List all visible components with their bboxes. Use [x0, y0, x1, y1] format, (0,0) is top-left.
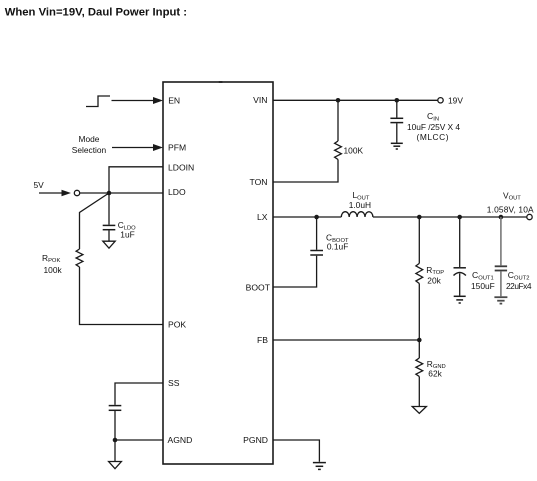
Mode Selection label: [72, 134, 107, 155]
L_OUT value label: [349, 190, 371, 210]
svg-text:100k: 100k: [44, 265, 63, 275]
IC U1 body: [163, 82, 273, 464]
svg-text:LDOIN: LDOIN: [168, 162, 194, 172]
svg-text:22uFx4: 22uFx4: [506, 281, 532, 291]
svg-text:PFM: PFM: [168, 143, 186, 153]
wire to R_TOP: [418, 217, 420, 263]
IC top-edge pin1 tick: [219, 81, 223, 83]
wire to C_LDO: [108, 193, 110, 225]
ground (earth) below C_IN: [391, 143, 403, 149]
EN step-input symbol: [86, 96, 110, 107]
resistor R_TOP: [416, 263, 423, 283]
node junction VOUT/C_OUT2: [499, 215, 504, 220]
wire LDO: [80, 192, 163, 194]
svg-text:Mode: Mode: [79, 134, 100, 144]
svg-text:PGND: PGND: [243, 435, 268, 445]
wire 100K to TON: [273, 160, 338, 183]
svg-text:10uF /25V X 4: 10uF /25V X 4: [407, 122, 460, 132]
svg-text:LX: LX: [257, 212, 268, 222]
R_POK label: [42, 253, 62, 275]
capacitor C_BOOT: [310, 251, 323, 256]
wire inductor to VOUT terminal: [373, 216, 527, 218]
wire R_TOP to FB: [418, 284, 420, 341]
capacitor C_SS: [109, 406, 122, 411]
wire FB node to R_GND: [418, 340, 420, 358]
node junction VIN/100K: [336, 98, 341, 103]
svg-text:BOOT: BOOT: [246, 282, 271, 292]
svg-text:5V: 5V: [34, 180, 45, 190]
svg-text:VIN: VIN: [253, 95, 267, 105]
wire to C_OUT1: [459, 217, 461, 267]
19V terminal circle: [438, 98, 443, 103]
5V terminal circle: [74, 190, 79, 195]
wire to C_BOOT: [316, 217, 318, 250]
V_OUT label: [487, 190, 534, 214]
capacitor C_OUT1 (polarized): [454, 268, 466, 276]
svg-text:Selection: Selection: [72, 145, 107, 155]
wire C_OUT2 to ground: [500, 271, 502, 296]
VOUT terminal circle: [527, 214, 532, 219]
wire C_SS to AGND line: [114, 411, 116, 440]
svg-text:POK: POK: [168, 320, 186, 330]
svg-text:150uF: 150uF: [471, 281, 495, 291]
wire LDOIN: [109, 167, 163, 193]
wire arrow into EN: [112, 97, 164, 104]
wire AGND: [115, 439, 163, 441]
wire arrow into PFM: [112, 144, 163, 151]
wire SS: [115, 383, 163, 405]
R_TOP label: [426, 265, 444, 286]
wire LX to inductor: [273, 216, 341, 218]
node junction LDO/5V: [107, 191, 112, 196]
node junction LX/C_BOOT: [314, 215, 319, 220]
ground (signal) below R_GND: [412, 407, 426, 414]
resistor R 100K: [335, 141, 342, 160]
ground (signal) below AGND: [109, 462, 122, 469]
svg-text:FB: FB: [257, 335, 268, 345]
node junction VOUT/C_OUT1: [457, 215, 462, 220]
svg-text:0.1uF: 0.1uF: [327, 241, 348, 251]
resistor R_GND: [416, 358, 423, 377]
svg-text:TON: TON: [250, 177, 268, 187]
wire VIN node to C_IN: [396, 100, 398, 117]
svg-text:1uF: 1uF: [120, 229, 134, 239]
svg-text:EN: EN: [168, 96, 180, 106]
node junction AGND: [113, 438, 118, 443]
svg-text:SS: SS: [168, 378, 180, 388]
ground (signal) below C_LDO: [103, 241, 115, 248]
wire diagonal junction to R_POK: [80, 193, 110, 249]
svg-text:When Vin=19V, Daul Power Input: When Vin=19V, Daul Power Input :: [5, 6, 187, 18]
C_IN value label: [407, 111, 460, 142]
capacitor C_IN: [390, 118, 403, 122]
node junction VOUT/R_TOP: [417, 215, 422, 220]
wire PGND: [273, 440, 319, 462]
capacitor C_OUT2: [495, 266, 507, 270]
C_OUT2 value label: [506, 270, 532, 291]
svg-text:19V: 19V: [448, 96, 463, 106]
svg-text:1.058V, 10A: 1.058V, 10A: [487, 204, 534, 214]
wire C_IN to ground: [396, 123, 398, 142]
wire VIN to 19V terminal: [273, 99, 438, 101]
wire R_GND to ground: [418, 377, 420, 407]
wire R_POK to POK: [80, 267, 164, 325]
wire VIN node to 100K: [337, 100, 339, 141]
wire to C_OUT2: [500, 217, 502, 265]
resistor R_POK: [76, 249, 83, 267]
svg-text:20k: 20k: [427, 275, 441, 285]
C_LDO value label: [118, 220, 136, 239]
svg-text:(MLCC): (MLCC): [417, 132, 449, 142]
arrow into 5V terminal: [39, 190, 71, 196]
C_OUT1 value label: [471, 270, 495, 291]
svg-text:1.0uH: 1.0uH: [349, 200, 371, 210]
wire FB: [273, 339, 419, 341]
C_BOOT value label: [326, 233, 349, 252]
wire AGND to ground: [114, 440, 116, 461]
node junction FB: [417, 338, 422, 343]
R_GND label: [427, 359, 446, 379]
wire C_OUT1 to ground: [459, 274, 461, 296]
wire C_LDO to ground: [108, 230, 110, 240]
ground (earth) below C_OUT2: [494, 297, 507, 303]
ground (earth) below C_OUT1: [454, 296, 466, 303]
svg-text:LDO: LDO: [168, 187, 186, 197]
svg-text:100K: 100K: [344, 145, 364, 155]
capacitor C_LDO: [103, 225, 116, 229]
inductor L_OUT: [341, 212, 373, 217]
svg-text:AGND: AGND: [168, 435, 193, 445]
ground (earth) below PGND: [313, 463, 326, 470]
node junction VIN/CIN: [395, 98, 400, 103]
svg-text:62k: 62k: [428, 368, 442, 378]
wire C_BOOT to BOOT: [273, 256, 317, 287]
